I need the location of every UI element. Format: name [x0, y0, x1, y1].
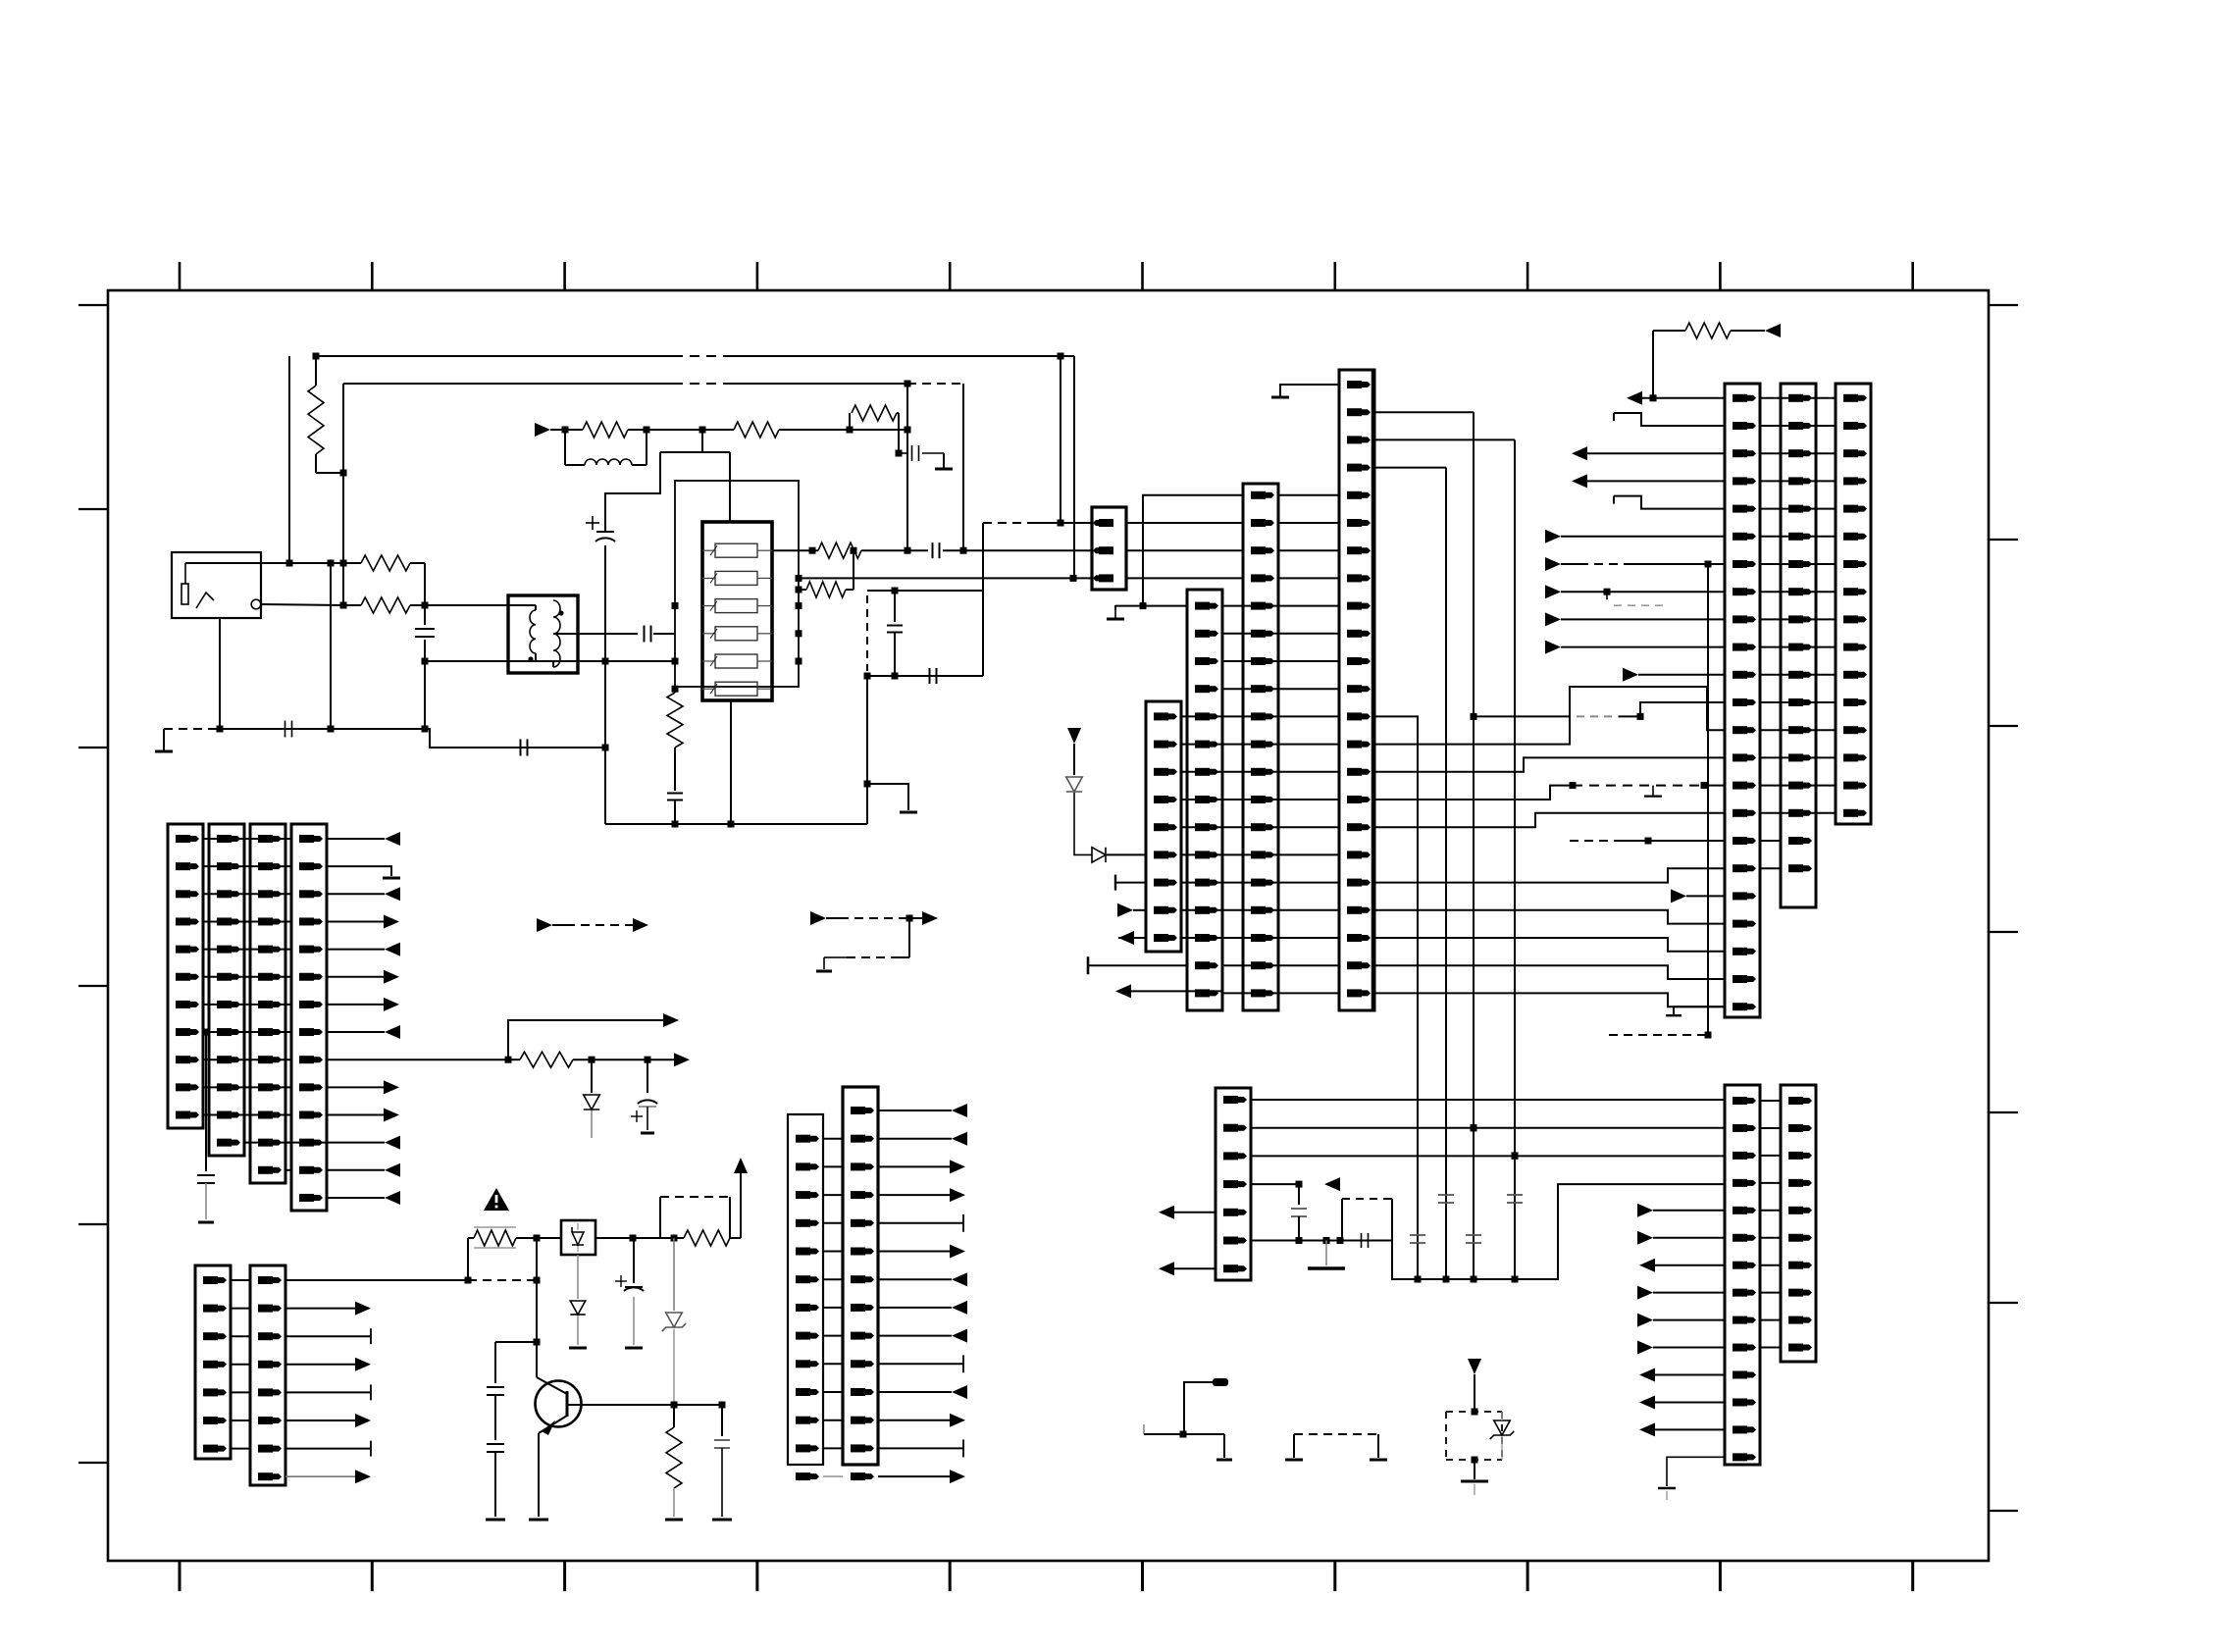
net N7 ground [1474, 1460, 1475, 1479]
wire J2 out rows [1126, 522, 1243, 524]
wire stair k2 [1373, 439, 1515, 440]
connector J19 column [1725, 1085, 1760, 1465]
wire rowB5 net [1250, 1240, 1392, 1242]
filter U1 resistor slots [715, 543, 757, 557]
arrow net N2 [810, 911, 826, 925]
connector J18 column [1216, 1088, 1251, 1280]
transformer T1 polarity dots [558, 610, 563, 615]
capacitor C12 [203, 1029, 210, 1036]
wire transformer row674 [425, 660, 605, 662]
connector J2 pins [1099, 519, 1113, 527]
capacitor C14 [494, 1342, 496, 1383]
resistor R13 fusible [474, 1230, 516, 1246]
capacitor C9 [894, 591, 896, 622]
wire W391 second bus [343, 383, 673, 385]
wire row k16 dashed [1570, 840, 1621, 842]
arrow P19 [327, 949, 385, 951]
arrows C7 rows [1637, 1204, 1653, 1217]
arrow P2 [1117, 903, 1133, 917]
wire row784 jog [1373, 757, 1725, 771]
wires C5 group rows [231, 1279, 250, 1281]
wire row756 jog [1373, 687, 1725, 745]
wire Q1 collector [536, 1342, 538, 1377]
wire rowB0 [1250, 1099, 1726, 1101]
ground G12 [486, 1519, 505, 1522]
thyristor D5 box [561, 1220, 595, 1255]
ground G1 [164, 728, 220, 730]
net N5 stub [1143, 1424, 1145, 1434]
capacitor C2 input [415, 628, 435, 630]
wires C6 group rows [823, 1138, 843, 1140]
wire row1305 dashed [468, 1279, 537, 1281]
wire row730 dashed [1474, 715, 1570, 717]
diode D8 chain [577, 1255, 579, 1299]
wires C2 group rows [1277, 494, 1339, 496]
wire power row1080 [327, 1058, 508, 1060]
arrow P37 up [740, 1173, 742, 1238]
stub P35 [285, 1448, 371, 1450]
arrow P39 [1159, 1262, 1174, 1275]
dashed link N3 [659, 1197, 661, 1238]
stub P31 [285, 1335, 371, 1337]
diode D3 [1092, 848, 1106, 862]
resistor R11 [1653, 330, 1685, 332]
resistor R2 vertical [315, 356, 317, 386]
arrow P36 [285, 1475, 357, 1477]
capacitor C22 [1507, 1194, 1523, 1196]
arrow net V1 top [1067, 728, 1081, 744]
transformer T1 box [508, 595, 578, 673]
wire U1 row6 out [772, 549, 818, 551]
capacitor C17 [1298, 1184, 1300, 1205]
ground G16 [1325, 1241, 1327, 1266]
resistor R10 vertical [674, 687, 676, 693]
wires C3 group rows [1760, 397, 1836, 399]
wire WB right riser [982, 523, 984, 676]
capacitor C20 [1438, 1194, 1454, 1196]
jack J1 sleeve pin wire [219, 618, 221, 729]
wire W295 riser [288, 356, 290, 563]
frame tick marks [179, 262, 181, 290]
arrow P18 [327, 920, 384, 922]
arrow P24 [674, 1053, 690, 1066]
wire stair k1 [1373, 411, 1474, 413]
wire U1 top feed [701, 430, 703, 452]
diode D2 [1066, 777, 1083, 792]
capacitor C6 [911, 445, 913, 461]
arrows C6 rows [878, 1110, 952, 1111]
connector J10 column [168, 824, 203, 1128]
arrow P29 [327, 1197, 385, 1199]
capacitor C13 electrolytic [633, 1238, 635, 1283]
connector J7 column [1725, 384, 1760, 1017]
arrow P32 [285, 1364, 357, 1366]
wire W840 [605, 823, 867, 825]
filter U1 right bus dots [796, 575, 802, 582]
capacitor C3 coupling [644, 626, 646, 643]
connector J20 column [1781, 1085, 1816, 1362]
connector J2 box [1092, 507, 1126, 590]
stub P33 [285, 1391, 371, 1393]
transistor Q1 [536, 1381, 582, 1427]
wire stair k3 [1373, 467, 1446, 469]
wire row6 to J2 [963, 549, 1092, 551]
ground G15 [665, 1519, 683, 1522]
wire row617 left [1115, 605, 1187, 607]
wire dashed row1055 [1609, 1034, 1708, 1036]
arrow P34 [285, 1420, 357, 1421]
wire WB bottom [867, 675, 983, 677]
capacitor C10 [929, 668, 931, 684]
wire x547 net [536, 1238, 538, 1342]
wire node A riser [316, 472, 343, 474]
wire T1 output row [578, 633, 638, 635]
arrow P26 [327, 1114, 384, 1116]
arrow P13 [1545, 641, 1561, 654]
arrow P27 [285, 1142, 385, 1144]
wires C2 to C3 rows [1373, 868, 1726, 882]
wire riser x982 dashed [962, 384, 964, 550]
wire y503 link [605, 452, 660, 532]
arrow P28 [327, 1169, 385, 1171]
capacitor C11 electrolytic [647, 1059, 648, 1093]
ground net N2b [908, 918, 910, 957]
ground G13 [529, 1519, 548, 1522]
wire U1 center stem [730, 700, 732, 824]
resistor R9 [796, 587, 802, 594]
connector J16 column [788, 1114, 823, 1465]
resistor R15 vertical [673, 1405, 675, 1427]
connector J14 column [195, 1265, 231, 1459]
transformer T1 secondary winding [553, 633, 578, 635]
wires C7 group rows [1761, 1100, 1781, 1102]
connector J9 column [1836, 384, 1871, 824]
vertical net x1741 [1707, 564, 1709, 1035]
arrow P14 [1623, 668, 1638, 682]
connector J6 column [1339, 370, 1374, 1010]
capacitor C4 [285, 721, 286, 738]
border frame [108, 290, 1989, 1561]
connector J11 column [209, 824, 244, 1156]
ground G17 [1667, 1457, 1725, 1486]
arrow P5 [1765, 324, 1781, 337]
net N6 dashed goalpost [1293, 1434, 1295, 1458]
wire W363 top bus [316, 355, 673, 357]
connector J3 column [1146, 701, 1181, 952]
wire rowB1 [1250, 1127, 1726, 1129]
wire rowB2 [1250, 1155, 1726, 1157]
zener D7 dashed box [1468, 1359, 1481, 1374]
filter U1 outer box [675, 481, 799, 687]
wire row k14 dashed gnd [1573, 785, 1704, 787]
wire power row1305 [285, 1279, 468, 1281]
capacitor C19 [1410, 1234, 1425, 1236]
ground G11 [327, 866, 391, 876]
wire riser x337 [330, 563, 332, 729]
vertical bus x1502 [1473, 412, 1475, 1279]
diode D4 [591, 1059, 593, 1093]
arrow P20 [327, 976, 384, 978]
ground G3 [867, 784, 908, 810]
wire transformer primary top [426, 604, 508, 606]
arrow input P1 [535, 423, 550, 437]
wire row505 [1143, 495, 1243, 606]
filter U1 left bus dots [672, 602, 679, 609]
wire W1 end riser [850, 429, 907, 431]
connector J5 column [1243, 484, 1278, 1010]
arrow P22 [327, 1031, 385, 1033]
vertical bus x1445 [1373, 716, 1418, 1279]
dashed box N4 [1341, 1199, 1343, 1241]
capacitor C1 electrolytic + [604, 545, 606, 661]
ground hook G9 [1614, 496, 1725, 509]
arrow P17 [327, 893, 385, 895]
wire D2 to diode D3 [1074, 793, 1092, 854]
wire row533 dashed [983, 522, 1033, 524]
capacitor C8 [667, 793, 683, 795]
connector J12 column [250, 824, 285, 1183]
ground G6 sideways [1087, 956, 1090, 974]
vertical bus x1474 [1445, 468, 1447, 1279]
ground hook G8 [1614, 413, 1725, 426]
wire jack row upper [185, 562, 361, 564]
connector J15 column [250, 1265, 285, 1485]
wire D5 out row1262 [595, 1237, 684, 1239]
arrow P38 [1159, 1206, 1174, 1219]
wire Q1 emitter gnd [538, 1433, 540, 1517]
warning triangle [484, 1188, 509, 1211]
wire Q1 base row [567, 1404, 722, 1406]
connector J4 column [1187, 590, 1222, 1010]
wire WB top [867, 590, 983, 592]
capacitor C7 [932, 542, 934, 558]
capacitor C18 [1361, 1233, 1363, 1248]
arrow net N1 [537, 918, 552, 932]
ground G2 [943, 453, 945, 469]
arrow P21 [327, 1004, 384, 1006]
resistor R5 [583, 422, 628, 438]
jack J1 tip contact [181, 584, 188, 604]
arrow P11 [1545, 585, 1561, 598]
resistor R4 [361, 597, 410, 613]
arrow P15 [1671, 889, 1686, 903]
resistor R8 [818, 542, 861, 558]
wire jack row lower [261, 604, 343, 605]
jack connector J1 box [172, 552, 261, 618]
jack J1 switch contact [196, 593, 214, 608]
wire row589 [799, 577, 1092, 579]
connector J17 column [843, 1087, 878, 1465]
arrow P12 [1545, 612, 1561, 626]
resistor R14 [684, 1230, 730, 1246]
transformer T1 primary winding [508, 604, 536, 606]
capacitor C15 [494, 1395, 496, 1440]
arrow P4 [1115, 984, 1131, 998]
arrow P30 [285, 1308, 357, 1310]
capacitor C21 [1466, 1234, 1481, 1236]
ground G4 [1114, 605, 1116, 610]
wire riser x433 [424, 563, 426, 625]
wire riser x617 [604, 661, 606, 824]
vertical bus x1544 [1514, 439, 1516, 1279]
filter U1 inner box [702, 522, 772, 700]
wire row1368 [495, 1341, 537, 1343]
wire W1 mid [647, 429, 734, 431]
resistor R12 [520, 1052, 573, 1067]
ground G10 [1674, 1007, 1725, 1015]
arrow P3 [1118, 931, 1134, 945]
resistor R6 [734, 422, 779, 438]
ground G7 [1280, 385, 1339, 396]
connector J13 column [291, 824, 327, 1211]
wire WB vert dashed [866, 595, 868, 671]
arrow P16 [327, 838, 385, 840]
capacitor C16 [721, 1405, 723, 1436]
wire row812 jog [1373, 786, 1573, 800]
arrow P7 [1572, 446, 1587, 460]
resistor R7 feedback [849, 413, 851, 430]
arrow P10 [1545, 557, 1561, 571]
arrow P9 [1545, 530, 1561, 543]
inductor L1 [564, 430, 566, 465]
wire rowB3 net [1250, 1183, 1299, 1185]
arrow P8 [1572, 474, 1587, 488]
arrow P25 [327, 1086, 384, 1088]
resistor R3 [361, 555, 410, 571]
ground G5 sideways [1114, 875, 1116, 891]
arrow P23 [508, 1020, 663, 1059]
wire row841 jog [1373, 813, 1725, 827]
wire x884 lower [866, 676, 868, 824]
wire bottomB [1392, 1184, 1726, 1279]
zener D6 [673, 1238, 675, 1311]
wires C1 group rows [202, 838, 291, 840]
capacitor C5 [520, 740, 522, 756]
wire W743 [220, 728, 425, 730]
connector J8 column [1781, 384, 1816, 907]
arrow P6 [1627, 391, 1642, 405]
